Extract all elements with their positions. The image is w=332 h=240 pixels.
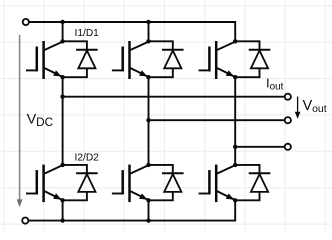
- terminal DC- (bottom-left): [22, 218, 28, 224]
- wire leg 2 collector drop: [148, 22, 150, 41]
- label Iout: [266, 75, 284, 92]
- wire phase 2 output bus: [149, 119, 285, 121]
- transistor I3 top (IGBT): [199, 41, 235, 79]
- junction top rail / leg 1: [60, 20, 64, 24]
- junction phase 3 tap: [233, 145, 237, 149]
- node leg 3 bottom collector: [233, 163, 237, 167]
- diode D6 bottom (freewheel): [235, 165, 270, 200]
- svg-text:I1/D1: I1/D1: [75, 28, 100, 39]
- label Vout: [303, 98, 327, 115]
- junction phase 1 tap: [60, 95, 64, 99]
- wire leg 1 emitter to DC- rail: [62, 200, 64, 220]
- terminal phase 1 output: [285, 94, 291, 100]
- node leg 2 bottom emitter: [146, 198, 150, 202]
- svg-text:Vout: Vout: [303, 98, 327, 115]
- terminal phase 2 output: [285, 117, 291, 123]
- label I1/D1: [75, 28, 100, 39]
- junction bottom rail / leg 1: [60, 218, 64, 222]
- node leg 1 top collector: [60, 39, 64, 43]
- label I2/D2: [75, 153, 100, 164]
- wire phase 1 output bus: [63, 96, 285, 98]
- wire leg 2 emitter to DC- rail: [148, 200, 150, 220]
- svg-text:I2/D2: I2/D2: [75, 153, 100, 164]
- diode D5 bottom (freewheel): [149, 165, 184, 200]
- wire leg 3 midpoint (phase 3): [234, 77, 236, 165]
- junction phase 2 tap: [146, 118, 150, 122]
- svg-text:Iout: Iout: [266, 75, 284, 92]
- node leg 3 bottom emitter: [233, 198, 237, 202]
- diode D4 bottom (freewheel): [63, 165, 98, 200]
- transistor I6 bottom (IGBT): [199, 165, 235, 203]
- svg-text:VDC: VDC: [27, 111, 53, 129]
- junction top rail / leg 2: [146, 20, 150, 24]
- node leg 2 top emitter: [146, 75, 150, 79]
- diode D1 top (freewheel): [63, 41, 98, 77]
- wire phase 3 output bus: [235, 146, 285, 148]
- wire bottom DC- rail: [28, 200, 235, 220]
- wire leg 2 midpoint (phase 2): [148, 77, 150, 165]
- node leg 1 bottom collector: [60, 163, 64, 167]
- transistor I2 top (IGBT): [112, 41, 148, 79]
- node leg 1 bottom emitter: [60, 198, 64, 202]
- arrow Vout: [295, 97, 301, 119]
- node leg 1 top emitter: [60, 75, 64, 79]
- diode D2 top (freewheel): [149, 41, 184, 77]
- wire top DC+ rail: [29, 22, 235, 41]
- transistor I4 bottom (IGBT): [26, 165, 62, 203]
- node leg 3 top emitter: [233, 75, 237, 79]
- node leg 2 bottom collector: [146, 163, 150, 167]
- wire leg 1 collector drop: [62, 22, 64, 41]
- node leg 2 top collector: [146, 39, 150, 43]
- transistor I5 bottom (IGBT): [112, 165, 148, 203]
- diode D3 top (freewheel): [235, 41, 270, 77]
- label VDC: [27, 111, 53, 129]
- terminal phase 3 output: [285, 144, 291, 150]
- terminal DC+ (top-left): [23, 19, 29, 25]
- node leg 3 top collector: [233, 39, 237, 43]
- wire leg 1 midpoint (phase 1): [62, 77, 64, 165]
- transistor I1 top (IGBT): [26, 41, 62, 79]
- arrow VDC (DC link voltage): [17, 35, 23, 207]
- junction bottom rail / leg 2: [146, 218, 150, 222]
